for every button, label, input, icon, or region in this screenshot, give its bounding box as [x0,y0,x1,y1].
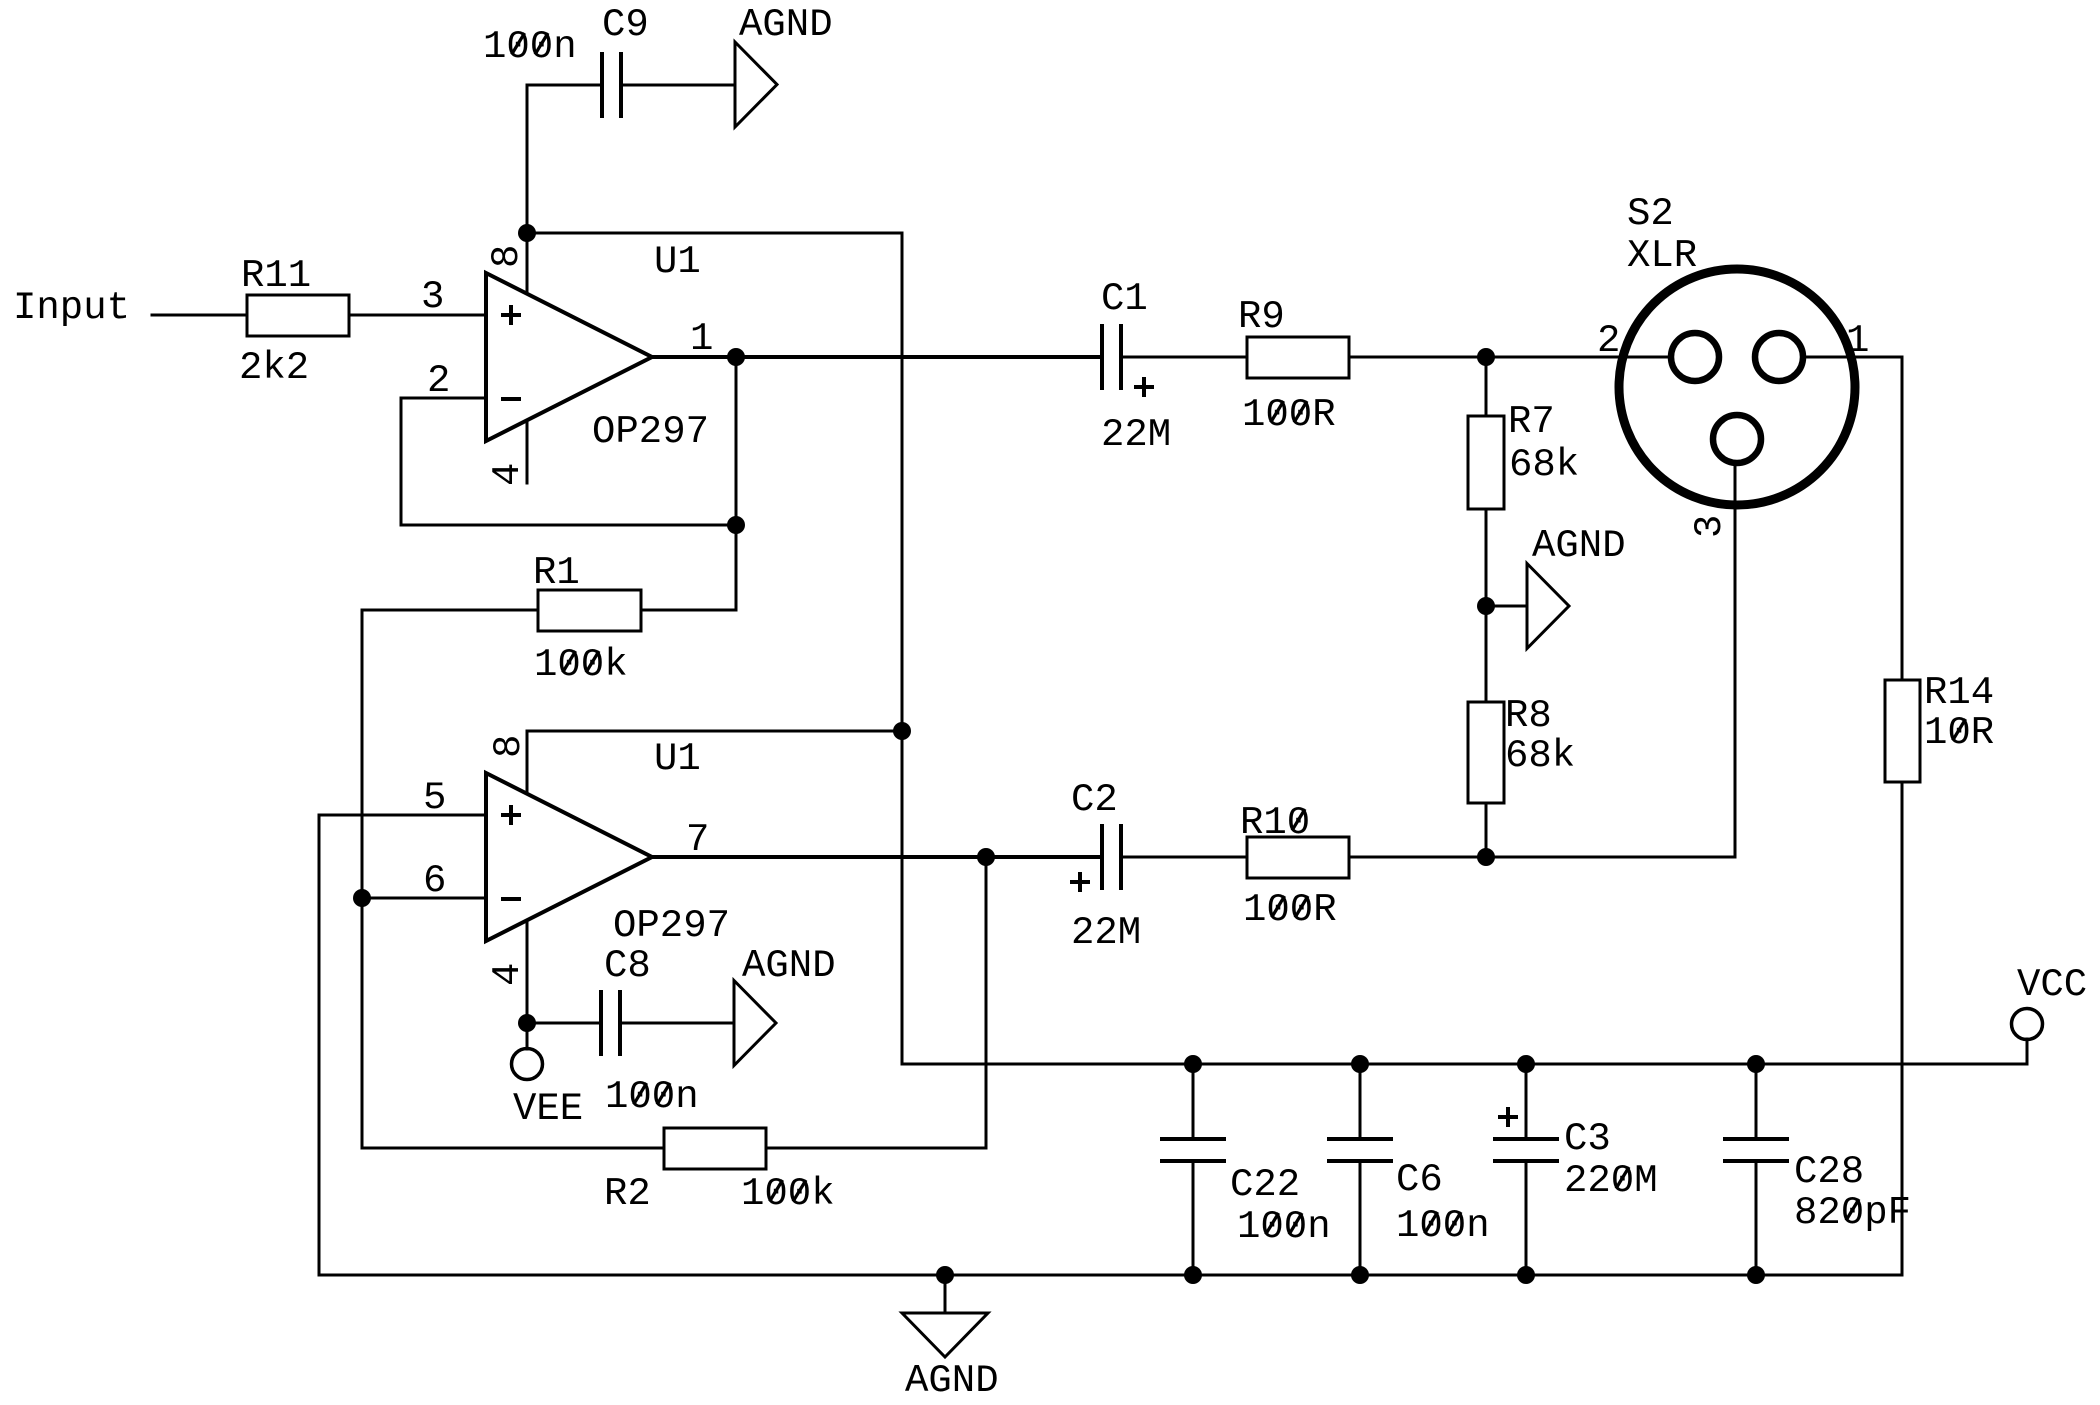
svg-text:8: 8 [487,735,531,758]
svg-text:100n: 100n [483,25,577,69]
svg-text:22M: 22M [1101,413,1171,457]
svg-text:6: 6 [423,859,446,903]
svg-text:Input: Input [13,286,130,330]
svg-text:C28: C28 [1794,1150,1864,1194]
svg-text:1: 1 [690,317,713,361]
svg-text:1: 1 [1846,319,1869,363]
svg-text:C9: C9 [602,3,649,47]
svg-text:R9: R9 [1238,295,1285,339]
svg-text:100n: 100n [1237,1205,1331,1249]
svg-text:R2: R2 [604,1172,651,1216]
svg-text:220M: 220M [1564,1159,1658,1203]
svg-text:C8: C8 [604,944,651,988]
svg-text:68k: 68k [1505,734,1575,778]
svg-text:C3: C3 [1564,1117,1611,1161]
svg-text:AGND: AGND [742,944,836,988]
svg-text:7: 7 [686,818,709,862]
svg-text:100k: 100k [741,1172,835,1216]
svg-text:U1: U1 [654,737,701,781]
svg-text:100n: 100n [1396,1204,1490,1248]
svg-text:3: 3 [421,275,444,319]
svg-text:R1: R1 [533,551,580,595]
svg-text:100k: 100k [534,643,628,687]
svg-text:10R: 10R [1924,711,1994,755]
svg-text:S2: S2 [1627,192,1674,236]
svg-text:R8: R8 [1505,694,1552,738]
svg-text:U1: U1 [654,240,701,284]
svg-text:C6: C6 [1396,1158,1443,1202]
svg-text:100R: 100R [1242,393,1336,437]
svg-text:3: 3 [1688,515,1732,538]
svg-text:OP297: OP297 [592,410,709,454]
svg-text:22M: 22M [1071,911,1141,955]
svg-text:R7: R7 [1508,400,1555,444]
svg-text:AGND: AGND [905,1359,999,1400]
svg-text:C2: C2 [1071,778,1118,822]
svg-text:2k2: 2k2 [239,346,309,390]
svg-text:68k: 68k [1509,443,1579,487]
svg-text:2: 2 [427,359,450,403]
svg-text:4: 4 [486,963,530,986]
svg-text:R10: R10 [1240,801,1310,845]
svg-text:100n: 100n [605,1075,699,1119]
svg-text:AGND: AGND [739,3,833,47]
svg-text:820pF: 820pF [1794,1191,1911,1235]
svg-text:VEE: VEE [513,1087,583,1131]
svg-text:VCC: VCC [2017,963,2087,1007]
svg-text:R14: R14 [1924,671,1994,715]
svg-text:C1: C1 [1101,277,1148,321]
svg-text:5: 5 [423,776,446,820]
svg-text:XLR: XLR [1627,234,1697,278]
svg-text:100R: 100R [1243,888,1337,932]
svg-text:OP297: OP297 [613,904,730,948]
svg-text:C22: C22 [1230,1163,1300,1207]
svg-text:2: 2 [1597,319,1620,363]
svg-text:R11: R11 [241,254,311,298]
svg-text:4: 4 [486,463,530,486]
svg-text:8: 8 [485,245,529,268]
svg-text:AGND: AGND [1532,524,1626,568]
